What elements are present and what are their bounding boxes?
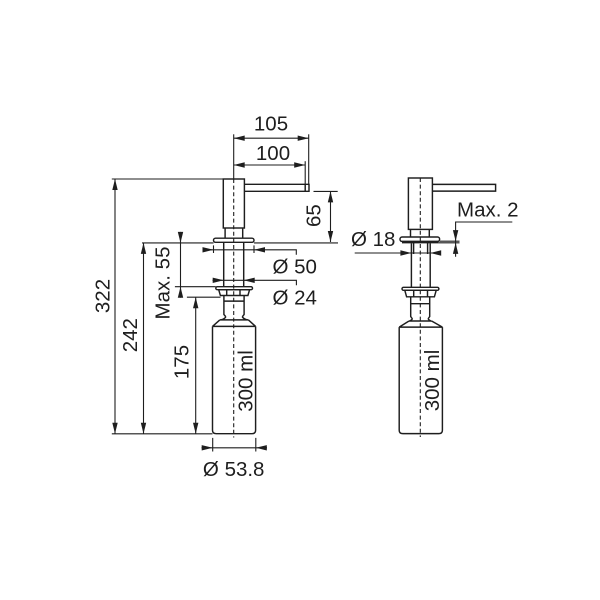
countertop line [142, 242, 338, 244]
dim 322 bottom reference [112, 433, 213, 435]
svg-text:Max. 55: Max. 55 [151, 247, 174, 320]
washer right [402, 287, 439, 290]
spout right [432, 184, 495, 191]
shank right outer [411, 243, 430, 287]
dim Max. 55 arrow bottom [178, 287, 183, 298]
pump head [223, 179, 244, 228]
flange (escutcheon) [214, 238, 255, 242]
svg-text:65: 65 [302, 204, 325, 227]
svg-text:Ø 53.8: Ø 53.8 [203, 458, 265, 481]
dim D24 arrow left [213, 278, 224, 283]
dim 322 arrow bottom [112, 423, 117, 434]
dim 105 line [234, 137, 309, 139]
bottle adapter [224, 296, 244, 317]
neck below head [225, 228, 243, 238]
dim Max. 55 washer reference [175, 286, 216, 288]
svg-text:Ø 50: Ø 50 [273, 256, 317, 279]
dim 322 arrow top [112, 179, 117, 190]
svg-text:322: 322 [91, 279, 114, 313]
dim D18 arrow left [400, 250, 411, 255]
dim 322 line [114, 179, 116, 434]
flange right [400, 237, 440, 241]
svg-text:Ø 18: Ø 18 [351, 228, 395, 251]
pump head right [408, 178, 432, 229]
dim 175 top reference [187, 296, 221, 298]
dim D53.8 arrow right [256, 445, 267, 450]
svg-text:100: 100 [256, 142, 290, 165]
centerline (dashed through body) [233, 179, 235, 438]
dim Max. 2 arrow top [453, 230, 458, 241]
dim 65 reference line top [314, 190, 338, 192]
adapter bell right [409, 319, 432, 321]
dim 105 arrow left [234, 136, 245, 141]
dim D53.8 extension lines [213, 438, 256, 452]
dim 175 arrow bottom [193, 423, 198, 434]
dim D50 extension lines [214, 245, 255, 253]
centerline right [419, 178, 421, 437]
dim 242 line [143, 243, 145, 434]
dim 242 arrow top [141, 243, 146, 254]
dim 100 line [234, 164, 306, 166]
dim 65 line [330, 191, 332, 242]
dim 65 arrow bottom [328, 231, 333, 242]
dim 175 line [195, 297, 197, 434]
bottle body right [399, 327, 442, 434]
dim 100 arrow left [234, 162, 245, 167]
nut facets right [414, 290, 428, 297]
dim D50 arrow left [203, 247, 214, 252]
svg-text:Max. 2: Max. 2 [457, 198, 519, 221]
centerline (solid extension above head) [233, 134, 235, 179]
shank tube [224, 242, 244, 286]
svg-text:175: 175 [170, 345, 193, 379]
svg-text:300 ml: 300 ml [421, 350, 444, 412]
bottle shoulder right [399, 321, 442, 327]
dim Max. 2 reference lines [438, 241, 459, 243]
dim 100 extension line [304, 161, 306, 184]
dim D18 line [355, 252, 441, 254]
dim D53.8 line [202, 447, 268, 449]
dim 175 arrow top [193, 297, 198, 308]
bottle body [213, 326, 256, 433]
dim D24 arrow right [244, 278, 255, 283]
dim 100 arrow right [294, 162, 305, 167]
dim D50 line with leader [203, 250, 297, 255]
washer [216, 287, 253, 290]
adapter bell [220, 317, 249, 320]
bottle adapter right [411, 297, 430, 319]
dim D53.8 arrow left [202, 445, 213, 450]
dim D24 line with leader [213, 280, 297, 285]
dim 242 arrow bottom [141, 423, 146, 434]
dim 105 extension line [308, 134, 310, 184]
dim Max. 2 arrow bottom [453, 243, 458, 254]
nut facets [227, 290, 240, 296]
spout tip notch [304, 184, 306, 191]
mounting nut [219, 290, 250, 296]
dim 322 top reference [112, 178, 224, 180]
flange underplate [402, 242, 438, 244]
mounting nut right [405, 290, 436, 297]
neck right [411, 229, 430, 237]
svg-text:242: 242 [119, 318, 142, 352]
svg-text:300 ml: 300 ml [235, 350, 258, 412]
dim D50 arrow right [254, 247, 265, 252]
dim Max. 55 arrow top [178, 232, 183, 243]
svg-text:Ø 24: Ø 24 [273, 286, 317, 309]
dim Max. 55 line [180, 232, 182, 298]
shank right inner [414, 243, 428, 254]
dim 105 arrow right [298, 136, 309, 141]
dim D18 arrow right [430, 250, 441, 255]
svg-text:105: 105 [254, 113, 288, 136]
bottle shoulder [213, 320, 256, 327]
spout [244, 184, 309, 191]
dim 65 arrow top [328, 191, 333, 202]
dim Max. 2 leader [456, 222, 513, 257]
